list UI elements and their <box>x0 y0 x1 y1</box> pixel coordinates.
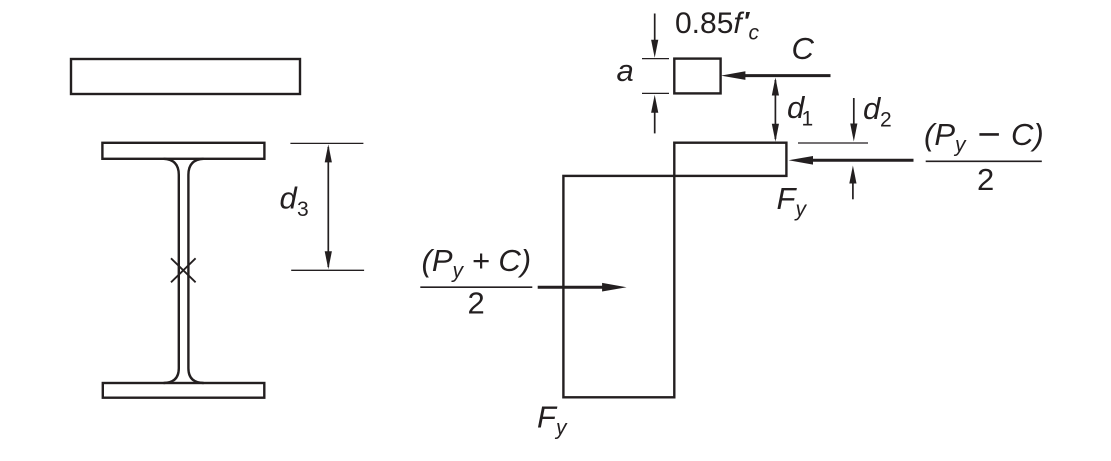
svg-text:C: C <box>792 31 815 66</box>
force (Py+C)/2 arrow <box>538 286 604 289</box>
svg-text:(Py + C): (Py + C) <box>422 243 532 283</box>
svg-text:Fy: Fy <box>537 400 568 440</box>
svg-text:C): C) <box>1011 117 1044 152</box>
d3 dimension extension line top <box>290 142 363 144</box>
svg-text:d: d <box>280 181 299 216</box>
svg-text:2: 2 <box>468 286 485 321</box>
a dimension tick bottom <box>642 92 669 94</box>
concrete slab rectangle <box>71 59 300 94</box>
I-beam top flange <box>102 143 264 159</box>
web stress block rectangle <box>563 176 674 397</box>
svg-text:Fy: Fy <box>777 181 808 221</box>
force C arrow <box>743 74 831 77</box>
d2 upper arrow <box>853 98 855 125</box>
concrete stress block rectangle <box>674 59 720 94</box>
I-beam web left line with fillets <box>164 159 179 383</box>
svg-text:1: 1 <box>802 107 814 130</box>
fraction bar <box>926 160 1042 162</box>
svg-text:a: a <box>617 53 634 88</box>
centroid x-mark on web <box>171 258 196 282</box>
svg-text:2: 2 <box>977 162 994 197</box>
a dimension upper arrow <box>654 14 656 43</box>
d3 dimension extension line bottom <box>291 269 364 271</box>
svg-text:3: 3 <box>297 198 309 221</box>
svg-text:0.85f′c: 0.85f′c <box>675 6 759 45</box>
svg-text:2: 2 <box>880 108 892 131</box>
d1 dimension arrows <box>774 80 776 139</box>
I-beam bottom flange <box>103 383 264 398</box>
d2 lower arrow <box>852 183 854 199</box>
d3 dimension arrow line <box>327 147 329 267</box>
force (Py-C)/2 arrow <box>811 159 914 162</box>
flange stress block rectangle <box>674 143 786 176</box>
a dimension lower arrow <box>654 111 656 133</box>
extension line at flange top right <box>798 142 868 144</box>
svg-text:(Py: (Py <box>924 117 967 157</box>
a dimension tick top <box>642 58 669 60</box>
minus sign <box>979 133 999 136</box>
I-beam web right line with fillets <box>188 159 203 383</box>
